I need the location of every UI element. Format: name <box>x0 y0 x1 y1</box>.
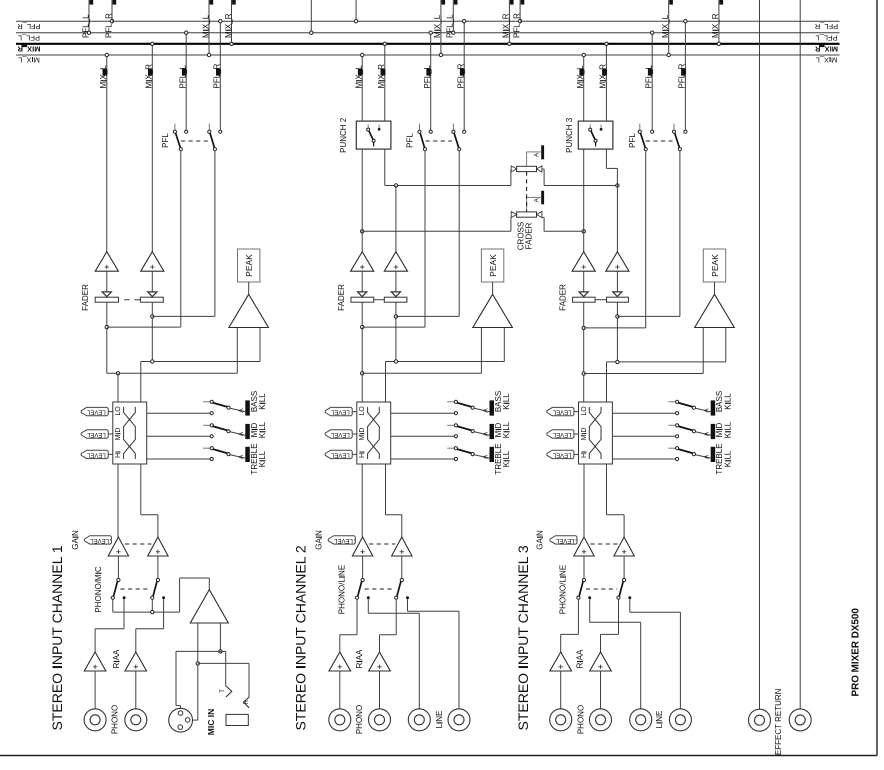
svg-text:PUNCH 2: PUNCH 2 <box>339 117 348 153</box>
svg-text:MIX_R: MIX_R <box>814 45 838 54</box>
svg-text:A: A <box>482 408 489 413</box>
svg-text:PFL_L: PFL_L <box>81 14 90 38</box>
svg-text:MID: MID <box>115 428 122 441</box>
svg-text:LEVEL: LEVEL <box>330 451 349 457</box>
svg-text:A: A <box>704 431 711 436</box>
svg-text:A: A <box>238 431 245 436</box>
svg-text:LEVEL: LEVEL <box>555 537 574 543</box>
svg-text:KILL: KILL <box>258 450 267 467</box>
svg-text:HI: HI <box>581 451 588 458</box>
svg-text:LEVEL: LEVEL <box>330 431 349 437</box>
svg-text:MIX_L: MIX_L <box>576 65 585 89</box>
svg-text:KILL: KILL <box>723 450 732 467</box>
svg-text:RIAA: RIAA <box>355 649 364 668</box>
svg-text:LEVEL: LEVEL <box>552 431 571 437</box>
svg-text:KILL: KILL <box>723 421 732 438</box>
svg-text:STEREO INPUT CHANNEL 2: STEREO INPUT CHANNEL 2 <box>293 545 309 730</box>
svg-text:MID: MID <box>581 428 588 441</box>
svg-text:MIX_R: MIX_R <box>599 64 608 89</box>
svg-text:LEVEL: LEVEL <box>86 431 105 437</box>
svg-text:A: A <box>482 431 489 436</box>
svg-text:LEVEL: LEVEL <box>552 409 571 415</box>
svg-text:A: A <box>704 408 711 413</box>
svg-text:FADER: FADER <box>525 222 534 249</box>
svg-text:PFL_R: PFL_R <box>457 63 466 88</box>
svg-text:KILL: KILL <box>502 421 511 438</box>
svg-text:MIC IN: MIC IN <box>206 709 216 735</box>
svg-text:PFL: PFL <box>161 133 170 148</box>
svg-text:PFL: PFL <box>406 133 415 148</box>
svg-text:KILL: KILL <box>502 393 511 410</box>
svg-text:FADER: FADER <box>81 284 90 311</box>
svg-text:PHONO: PHONO <box>111 705 120 734</box>
svg-text:PFL_L: PFL_L <box>645 64 654 88</box>
svg-text:PFL_R: PFL_R <box>512 13 521 38</box>
svg-text:LO: LO <box>581 406 588 416</box>
svg-text:MIX_L: MIX_L <box>433 14 442 38</box>
svg-text:MIX_R: MIX_R <box>711 13 720 38</box>
svg-text:MIX_R: MIX_R <box>502 13 511 38</box>
svg-text:PEAK: PEAK <box>710 254 720 277</box>
svg-text:LEVEL: LEVEL <box>334 537 353 543</box>
svg-text:A: A <box>482 454 489 459</box>
svg-text:KILL: KILL <box>723 393 732 410</box>
svg-text:MIX_R: MIX_R <box>17 45 41 54</box>
svg-text:EFFECT RETURN: EFFECT RETURN <box>774 688 783 755</box>
svg-text:STEREO INPUT CHANNEL 3: STEREO INPUT CHANNEL 3 <box>515 545 531 730</box>
svg-text:PRO MIXER DX500: PRO MIXER DX500 <box>851 608 862 697</box>
svg-text:KILL: KILL <box>258 421 267 438</box>
svg-text:MIX_L: MIX_L <box>201 14 210 38</box>
svg-text:MIX_L: MIX_L <box>661 14 670 38</box>
svg-text:PFL_L: PFL_L <box>18 33 40 42</box>
svg-text:PFL_R: PFL_R <box>678 63 687 88</box>
svg-text:PUNCH 3: PUNCH 3 <box>565 117 574 153</box>
svg-text:PEAK: PEAK <box>488 254 498 277</box>
svg-text:LEVEL: LEVEL <box>86 451 105 457</box>
svg-text:PHONO/MIC: PHONO/MIC <box>94 566 103 612</box>
svg-text:PHONO: PHONO <box>355 705 364 734</box>
svg-text:MIX_R: MIX_R <box>377 64 386 89</box>
svg-text:LEVEL: LEVEL <box>552 451 571 457</box>
svg-text:A: A <box>238 454 245 459</box>
svg-text:PHONO/LINE: PHONO/LINE <box>559 565 568 614</box>
svg-text:MIX_L: MIX_L <box>355 65 364 89</box>
svg-text:PFL_R: PFL_R <box>814 22 838 31</box>
svg-text:HI: HI <box>115 451 122 458</box>
svg-text:A: A <box>704 454 711 459</box>
svg-text:STEREO INPUT CHANNEL 1: STEREO INPUT CHANNEL 1 <box>49 545 65 730</box>
svg-text:PFL_R: PFL_R <box>17 22 41 31</box>
svg-text:MIX_L: MIX_L <box>99 65 108 89</box>
svg-text:MID: MID <box>359 428 366 441</box>
svg-text:A: A <box>533 152 540 157</box>
svg-text:A: A <box>533 197 540 202</box>
svg-text:LO: LO <box>115 406 122 416</box>
svg-text:LEVEL: LEVEL <box>90 537 109 543</box>
svg-text:HI: HI <box>359 451 366 458</box>
svg-text:KILL: KILL <box>502 450 511 467</box>
svg-text:LEVEL: LEVEL <box>86 409 105 415</box>
svg-text:A: A <box>238 408 245 413</box>
svg-text:RIAA: RIAA <box>112 649 121 668</box>
svg-text:PEAK: PEAK <box>244 254 254 277</box>
svg-text:PFL_L: PFL_L <box>815 33 837 42</box>
svg-text:PFL: PFL <box>628 133 637 148</box>
svg-text:RIAA: RIAA <box>576 649 585 668</box>
svg-text:FADER: FADER <box>337 284 346 311</box>
svg-text:PFL_L: PFL_L <box>446 14 455 38</box>
svg-text:LEVEL: LEVEL <box>330 409 349 415</box>
svg-text:PHONO/LINE: PHONO/LINE <box>337 565 346 614</box>
svg-text:MIX_R: MIX_R <box>145 64 154 89</box>
svg-text:MIX_R: MIX_R <box>224 13 233 38</box>
svg-text:LO: LO <box>359 406 366 416</box>
svg-text:R: R <box>244 699 250 704</box>
svg-text:PFL_L: PFL_L <box>179 64 188 88</box>
svg-text:GAIN: GAIN <box>314 530 323 550</box>
svg-text:FADER: FADER <box>559 284 568 311</box>
svg-text:MIX_L: MIX_L <box>18 56 40 65</box>
svg-text:LINE: LINE <box>435 711 444 729</box>
svg-text:PFL_L: PFL_L <box>423 64 432 88</box>
svg-text:PFL_R: PFL_R <box>104 13 113 38</box>
svg-text:PFL_R: PFL_R <box>213 63 222 88</box>
svg-text:KILL: KILL <box>258 393 267 410</box>
svg-text:GAIN: GAIN <box>71 530 80 550</box>
svg-text:LINE: LINE <box>655 711 664 729</box>
svg-text:T: T <box>220 689 226 693</box>
svg-text:GAIN: GAIN <box>535 530 544 550</box>
svg-text:MIX_L: MIX_L <box>816 56 838 65</box>
svg-text:PHONO: PHONO <box>577 705 586 734</box>
